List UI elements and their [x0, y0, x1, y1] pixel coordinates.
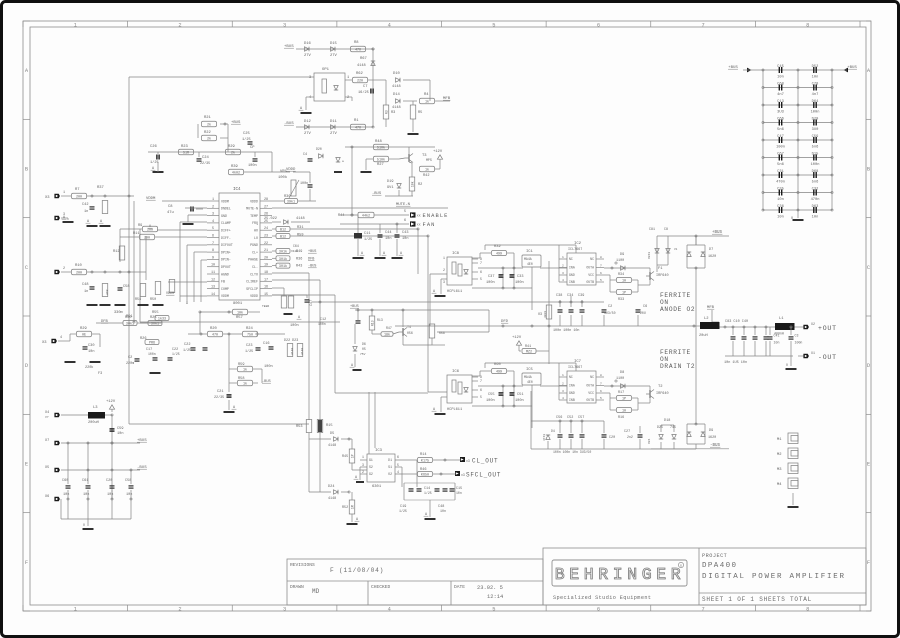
- svg-text:499: 499: [496, 371, 502, 375]
- svg-text:5n6: 5n6: [777, 163, 784, 167]
- svg-text:499: 499: [496, 253, 502, 257]
- svg-text:NC: NC: [590, 375, 594, 379]
- svg-text:C37: C37: [488, 275, 494, 279]
- svg-text:51R: 51R: [183, 152, 189, 156]
- svg-text:C45: C45: [777, 65, 784, 69]
- svg-text:2: 2: [562, 264, 564, 267]
- svg-text:D12: D12: [304, 120, 312, 124]
- svg-text:R11: R11: [133, 232, 139, 236]
- svg-text:R31: R31: [297, 226, 303, 230]
- svg-text:M1: M1: [777, 438, 782, 442]
- svg-text:6: 6: [480, 270, 482, 274]
- svg-text:DPIN+: DPIN+: [221, 250, 231, 254]
- svg-text:R39: R39: [231, 165, 239, 169]
- svg-text:10n: 10n: [88, 350, 94, 354]
- svg-text:10n: 10n: [83, 493, 89, 497]
- svg-text:IC3: IC3: [375, 449, 383, 453]
- svg-text:MD: MD: [312, 588, 320, 595]
- svg-text:330m: 330m: [114, 311, 123, 315]
- svg-text:D18: D18: [664, 419, 670, 423]
- svg-text:C25: C25: [243, 132, 251, 136]
- svg-text:ON: ON: [660, 299, 669, 306]
- svg-text:100n: 100n: [300, 182, 308, 186]
- svg-text:SFCLIP: SFCLIP: [246, 287, 258, 291]
- svg-text:F: F: [867, 560, 870, 566]
- svg-text:0E: 0E: [82, 334, 86, 338]
- svg-text:R42: R42: [423, 174, 429, 178]
- svg-text:5n6: 5n6: [812, 145, 819, 149]
- svg-text:E: E: [25, 462, 28, 468]
- svg-text:C51: C51: [517, 393, 523, 397]
- svg-text:470n: 470n: [776, 180, 785, 184]
- svg-text:A: A: [186, 301, 188, 305]
- svg-text:6: 6: [212, 235, 214, 239]
- svg-text:R29: R29: [80, 327, 88, 331]
- svg-text:E: E: [867, 462, 870, 468]
- svg-text:TEMP: TEMP: [250, 214, 258, 218]
- svg-text:1: 1: [63, 191, 65, 195]
- svg-text:3: 3: [562, 390, 564, 393]
- svg-text:C26: C26: [150, 145, 158, 149]
- svg-text:4n7: 4n7: [812, 93, 819, 97]
- svg-text:IC4: IC4: [233, 188, 241, 192]
- svg-text:1k: 1k: [425, 100, 429, 105]
- svg-text:D4: D4: [551, 429, 555, 433]
- svg-text:7: 7: [480, 379, 482, 383]
- svg-text:+12V: +12V: [433, 150, 443, 154]
- svg-text:100n: 100n: [795, 341, 803, 345]
- svg-text:1M: 1M: [350, 505, 354, 509]
- svg-text:R20: R20: [210, 327, 218, 331]
- svg-text:3: 3: [443, 280, 445, 284]
- svg-text:10n 1U5 10n: 10n 1U5 10n: [724, 361, 747, 365]
- svg-text:26: 26: [264, 213, 268, 217]
- svg-text:9: 9: [212, 256, 214, 260]
- svg-text:22/35: 22/35: [200, 161, 210, 166]
- svg-text:3: 3: [63, 213, 65, 217]
- svg-text:R52: R52: [342, 506, 348, 510]
- svg-text:D22 D23: D22 D23: [284, 339, 298, 343]
- svg-text:R16: R16: [618, 416, 624, 420]
- svg-text:SFCL_OUT: SFCL_OUT: [466, 472, 501, 479]
- svg-text:25.022: 25.022: [264, 217, 277, 221]
- svg-text:10n: 10n: [440, 509, 446, 513]
- svg-text:O: O: [83, 523, 85, 527]
- svg-text:10n: 10n: [777, 75, 784, 79]
- svg-text:470: 470: [212, 334, 218, 338]
- svg-text:27V: 27V: [304, 132, 312, 136]
- svg-text:R9: R9: [138, 224, 142, 228]
- svg-text:3: 3: [562, 272, 564, 275]
- svg-text:8: 8: [600, 256, 602, 259]
- svg-text:30k1: 30k1: [151, 322, 159, 327]
- svg-text:C31: C31: [777, 170, 784, 174]
- svg-text:SHEET 1 OF 1 SHEETS TOTAL: SHEET 1 OF 1 SHEETS TOTAL: [702, 596, 812, 603]
- svg-text:D1: D1: [388, 458, 392, 462]
- svg-text:NC: NC: [569, 375, 573, 379]
- svg-text:4743: 4743: [543, 434, 546, 441]
- svg-text:Specialized Studio Equipment: Specialized Studio Equipment: [553, 595, 651, 601]
- svg-text:3: 3: [309, 76, 311, 80]
- svg-text:ANODE O2: ANODE O2: [660, 306, 695, 313]
- svg-text:C48: C48: [82, 283, 88, 287]
- svg-text:C78: C78: [812, 82, 819, 86]
- svg-text:CLAMP: CLAMP: [221, 221, 231, 225]
- svg-text:C58: C58: [125, 479, 131, 483]
- svg-text:1k: 1k: [425, 168, 429, 173]
- svg-text:7: 7: [600, 264, 602, 267]
- svg-text:C44: C44: [385, 231, 391, 235]
- svg-text:22: 22: [264, 242, 268, 246]
- svg-text:D68: D68: [812, 170, 819, 174]
- svg-text:R41: R41: [525, 345, 531, 349]
- svg-text:R23: R23: [181, 145, 189, 149]
- svg-text:D16: D16: [304, 42, 312, 46]
- svg-text:CL+: CL+: [252, 250, 258, 254]
- svg-text:200: 200: [76, 196, 82, 200]
- svg-text:16/25: 16/25: [358, 90, 369, 95]
- svg-text:47u: 47u: [167, 211, 174, 215]
- svg-text:4: 4: [562, 279, 564, 282]
- svg-text:C16: C16: [263, 342, 269, 346]
- svg-text:301k: 301k: [279, 264, 287, 269]
- svg-text:200: 200: [147, 229, 153, 233]
- svg-text:301k: 301k: [279, 257, 287, 262]
- svg-text:1n: 1n: [84, 210, 88, 214]
- svg-text:MZ2: MZ2: [526, 351, 532, 355]
- svg-text:CL_OUT: CL_OUT: [472, 458, 498, 465]
- svg-text:C59: C59: [117, 427, 123, 431]
- svg-text:2: 2: [443, 268, 445, 272]
- svg-text:D52: D52: [812, 65, 819, 69]
- svg-text:M3: M3: [777, 468, 782, 472]
- svg-text:3: 3: [212, 213, 214, 217]
- svg-text:4148: 4148: [392, 106, 401, 110]
- svg-text:17: 17: [264, 278, 268, 282]
- svg-text:R12: R12: [113, 250, 119, 254]
- svg-text:3: 3: [362, 463, 364, 467]
- svg-text:7: 7: [600, 382, 602, 385]
- svg-text:BEHRINGER: BEHRINGER: [555, 565, 686, 584]
- svg-text:C13: C13: [777, 100, 784, 104]
- svg-text:xx: xx: [417, 214, 421, 218]
- svg-text:12: 12: [211, 278, 215, 282]
- svg-text:1: 1: [212, 198, 214, 202]
- svg-text:M4: M4: [777, 483, 782, 487]
- svg-text:C11: C11: [364, 232, 370, 236]
- svg-text:FERRITE: FERRITE: [660, 349, 691, 356]
- svg-text:D64: D64: [812, 100, 819, 104]
- svg-text:C6: C6: [643, 305, 647, 309]
- svg-text:C56: C56: [556, 416, 562, 420]
- svg-text:470: 470: [355, 127, 361, 131]
- svg-text:X6: X6: [45, 495, 49, 499]
- svg-text:FAN: FAN: [423, 222, 436, 228]
- svg-text:C67: C67: [777, 152, 784, 156]
- svg-text:C21: C21: [217, 390, 223, 394]
- svg-text:F: F: [25, 560, 28, 566]
- svg-text:1: 1: [562, 374, 564, 377]
- svg-text:+12V: +12V: [106, 400, 116, 404]
- svg-text:100n: 100n: [264, 365, 273, 369]
- svg-text:xx: xx: [417, 223, 421, 227]
- svg-text:2: 2: [63, 267, 65, 271]
- svg-text:HCPL611: HCPL611: [447, 290, 462, 294]
- svg-text:4E0: 4E0: [527, 380, 533, 384]
- svg-text:19: 19: [264, 264, 268, 268]
- svg-text:4E0: 4E0: [527, 262, 533, 266]
- svg-text:K650: K650: [421, 474, 429, 478]
- svg-text:C58: C58: [123, 285, 129, 289]
- svg-text:924: 924: [648, 438, 651, 444]
- svg-text:28: 28: [264, 198, 268, 202]
- svg-text:HCPL611: HCPL611: [447, 408, 462, 412]
- svg-text:R45: R45: [342, 455, 348, 459]
- svg-text:10n: 10n: [777, 198, 784, 202]
- svg-text:200: 200: [76, 272, 82, 276]
- svg-text:1/25: 1/25: [245, 349, 253, 354]
- svg-text:C57: C57: [578, 416, 584, 420]
- svg-text:IRF640: IRF640: [656, 274, 669, 278]
- svg-text:IC1: IC1: [526, 250, 534, 254]
- svg-text:REVISIONS: REVISIONS: [290, 562, 315, 568]
- svg-text:1: 1: [74, 606, 77, 612]
- svg-text:39k1: 39k1: [287, 200, 295, 205]
- svg-text:CL-: CL-: [252, 265, 258, 269]
- svg-text:R58: R58: [439, 331, 445, 335]
- svg-text:R17: R17: [618, 391, 624, 395]
- svg-text:C42: C42: [82, 203, 88, 207]
- svg-text:2: 2: [212, 205, 214, 209]
- svg-text:100n 100n 10n 3U3/50: 100n 100n 10n 3U3/50: [553, 450, 591, 454]
- svg-text:4148: 4148: [357, 64, 366, 68]
- svg-text:1: 1: [362, 455, 364, 459]
- svg-text:OUTA: OUTA: [586, 384, 594, 388]
- svg-text:5: 5: [492, 606, 495, 612]
- svg-text:D15: D15: [812, 152, 819, 156]
- svg-text:CLIREF: CLIREF: [246, 280, 258, 284]
- svg-text:C33: C33: [517, 275, 523, 279]
- svg-text:FERRITE: FERRITE: [660, 292, 691, 299]
- svg-text:R58: R58: [238, 377, 244, 381]
- svg-text:5n6: 5n6: [777, 128, 784, 132]
- svg-text:R59: R59: [297, 234, 303, 238]
- svg-text:COMP: COMP: [221, 287, 229, 291]
- svg-text:D63: D63: [812, 205, 819, 209]
- svg-text:K175: K175: [421, 460, 429, 464]
- svg-text:INA: INA: [569, 266, 575, 270]
- svg-text:13: 13: [211, 286, 215, 290]
- svg-text:5: 5: [600, 397, 602, 400]
- svg-text:8001: 8001: [233, 302, 243, 306]
- svg-text:DIFOUT: DIFOUT: [221, 243, 233, 247]
- svg-text:C23: C23: [246, 344, 252, 348]
- svg-text:F1: F1: [658, 267, 663, 271]
- svg-text:4148: 4148: [296, 217, 305, 221]
- svg-text:DIFF-: DIFF-: [221, 236, 231, 240]
- svg-text:B12: B12: [280, 229, 286, 233]
- svg-text:100n: 100n: [318, 322, 326, 326]
- svg-text:10n: 10n: [126, 493, 132, 497]
- svg-text:1: 1: [74, 22, 77, 28]
- svg-text:R27: R27: [377, 163, 384, 167]
- svg-text:10n: 10n: [456, 491, 462, 495]
- svg-text:C47: C47: [777, 135, 784, 139]
- svg-text:100n: 100n: [248, 164, 257, 168]
- svg-text:6: 6: [597, 606, 600, 612]
- svg-text:3U3/50: 3U3/50: [604, 311, 616, 315]
- svg-text:D8: D8: [620, 371, 624, 375]
- svg-text:1P: 1P: [350, 454, 354, 458]
- svg-text:R50: R50: [150, 298, 156, 302]
- svg-text:R14: R14: [420, 453, 426, 457]
- svg-text:DIGITAL POWER AMPLIFIER: DIGITAL POWER AMPLIFIER: [702, 573, 846, 581]
- svg-text:23.02. 5: 23.02. 5: [477, 585, 503, 591]
- svg-text:C59: C59: [812, 135, 819, 139]
- svg-text:R57: R57: [236, 316, 243, 320]
- svg-text:VDDD: VDDD: [250, 294, 258, 298]
- svg-text:1/25: 1/25: [150, 160, 159, 165]
- svg-text:3U0: 3U0: [812, 128, 819, 132]
- svg-text:R24: R24: [246, 327, 254, 331]
- svg-text:510k: 510k: [377, 146, 385, 151]
- svg-text:R34: R34: [618, 273, 624, 277]
- svg-text:VCC: VCC: [588, 391, 594, 395]
- svg-text:R32: R32: [494, 245, 502, 249]
- svg-text:C66: C66: [777, 117, 784, 121]
- svg-text:ICL7667: ICL7667: [568, 248, 582, 252]
- svg-text:D7: D7: [709, 248, 713, 252]
- svg-text:100k: 100k: [278, 175, 288, 180]
- svg-text:C38: C38: [556, 294, 562, 298]
- svg-text:10k: 10k: [237, 311, 243, 316]
- svg-text:R30: R30: [125, 316, 131, 320]
- svg-text:D24: D24: [328, 485, 334, 489]
- svg-text:C4: C4: [303, 153, 307, 157]
- svg-text:4n7: 4n7: [777, 93, 784, 97]
- svg-text:100n: 100n: [515, 281, 524, 285]
- svg-text:DIFF+: DIFF+: [221, 229, 231, 233]
- svg-text:D9: D9: [709, 429, 713, 433]
- svg-text:R62: R62: [356, 72, 364, 76]
- svg-text:4: 4: [388, 606, 391, 612]
- svg-text:C32: C32: [812, 187, 819, 191]
- svg-text:S2: S2: [369, 465, 373, 469]
- svg-text:2k: 2k: [231, 151, 235, 156]
- svg-text:+OUT: +OUT: [818, 325, 837, 332]
- svg-text:4: 4: [562, 397, 564, 400]
- svg-text:21: 21: [264, 249, 268, 253]
- svg-text:MA4A: MA4A: [524, 257, 532, 261]
- svg-text:14: 14: [211, 293, 215, 297]
- svg-text:10n: 10n: [107, 493, 113, 497]
- svg-text:G1: G1: [369, 458, 373, 462]
- svg-text:LO: LO: [254, 236, 258, 240]
- svg-text:27V: 27V: [330, 54, 338, 58]
- svg-text:2: 2: [347, 96, 349, 100]
- svg-text:X7: X7: [45, 439, 49, 443]
- svg-text:IC2: IC2: [574, 242, 582, 246]
- svg-text:C3: C3: [795, 334, 799, 338]
- svg-text:R44: R44: [338, 214, 344, 218]
- svg-text:D: D: [25, 363, 28, 369]
- svg-text:X3: X3: [42, 341, 47, 345]
- svg-text:CHECKED: CHECKED: [371, 584, 391, 590]
- svg-text:10n: 10n: [812, 215, 819, 219]
- svg-text:3U3: 3U3: [777, 110, 784, 114]
- svg-text:5: 5: [397, 463, 399, 467]
- svg-text:IC7: IC7: [574, 360, 582, 364]
- svg-text:C43: C43: [402, 231, 408, 235]
- svg-text:R2: R2: [418, 183, 422, 187]
- svg-text:6: 6: [480, 388, 482, 392]
- svg-text:056: 056: [407, 331, 413, 335]
- svg-text:X4: X4: [45, 411, 49, 415]
- svg-text:2k: 2k: [207, 137, 211, 142]
- svg-text:NC: NC: [590, 257, 594, 261]
- svg-text:IRF640: IRF640: [656, 392, 669, 396]
- svg-text:15: 15: [264, 293, 268, 297]
- svg-text:5: 5: [212, 227, 214, 231]
- svg-text:220k: 220k: [85, 365, 93, 370]
- svg-text:7: 7: [701, 22, 704, 28]
- svg-text:VR1: VR1: [280, 170, 288, 174]
- svg-text:HO: HO: [254, 229, 258, 233]
- svg-text:R: R: [680, 564, 682, 568]
- svg-text:L1: L1: [779, 317, 784, 321]
- svg-text:100n: 100n: [811, 163, 820, 167]
- svg-text:GND: GND: [221, 214, 227, 218]
- svg-text:22/35: 22/35: [214, 395, 224, 400]
- svg-text:5n6: 5n6: [812, 180, 819, 184]
- svg-text:100n: 100n: [290, 324, 299, 328]
- svg-text:O2: O2: [388, 472, 392, 476]
- svg-text:1P: 1P: [622, 398, 626, 402]
- svg-text:75V: 75V: [360, 353, 366, 356]
- svg-text:VDDD: VDDD: [250, 199, 258, 203]
- svg-text:1n: 1n: [84, 290, 88, 294]
- svg-text:1/25: 1/25: [172, 352, 180, 356]
- svg-text:X1: X1: [811, 351, 815, 355]
- svg-text:D9: D9: [620, 253, 624, 257]
- svg-text:100n: 100n: [148, 352, 156, 356]
- svg-text:R47: R47: [386, 326, 392, 330]
- svg-text:INA: INA: [569, 384, 575, 388]
- svg-text:X5: X5: [45, 466, 49, 470]
- svg-text:R46: R46: [420, 468, 426, 472]
- svg-text:INB: INB: [569, 280, 575, 284]
- svg-text:a: a: [342, 160, 344, 163]
- svg-text:O: O: [786, 363, 788, 367]
- svg-text:6: 6: [600, 390, 602, 393]
- svg-text:C8: C8: [664, 227, 668, 231]
- svg-text:220: 220: [357, 80, 363, 84]
- svg-text:R37: R37: [97, 186, 104, 190]
- svg-text:470: 470: [355, 49, 361, 53]
- svg-text:FRQ: FRQ: [252, 221, 258, 225]
- svg-text:220m: 220m: [126, 362, 134, 366]
- svg-text:5: 5: [600, 279, 602, 282]
- svg-text:C35: C35: [777, 187, 784, 191]
- svg-text:IC8: IC8: [452, 252, 460, 256]
- svg-text:C41: C41: [774, 334, 780, 338]
- svg-text:R26: R26: [140, 337, 146, 341]
- svg-text:10n: 10n: [777, 215, 784, 219]
- svg-text:1/25: 1/25: [364, 237, 372, 242]
- svg-text:2: 2: [562, 382, 564, 385]
- svg-text:2n2: 2n2: [627, 435, 633, 439]
- svg-text:27: 27: [264, 205, 268, 209]
